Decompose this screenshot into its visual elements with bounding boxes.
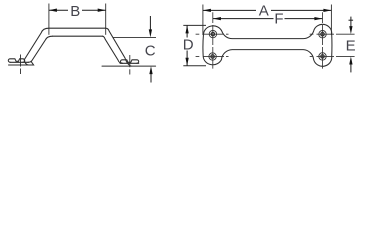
svg-text:F: F	[274, 11, 283, 28]
svg-text:A: A	[259, 2, 269, 19]
svg-text:E: E	[346, 37, 356, 54]
svg-text:C: C	[145, 43, 156, 60]
svg-text:D: D	[183, 37, 194, 54]
svg-text:B: B	[70, 3, 80, 20]
